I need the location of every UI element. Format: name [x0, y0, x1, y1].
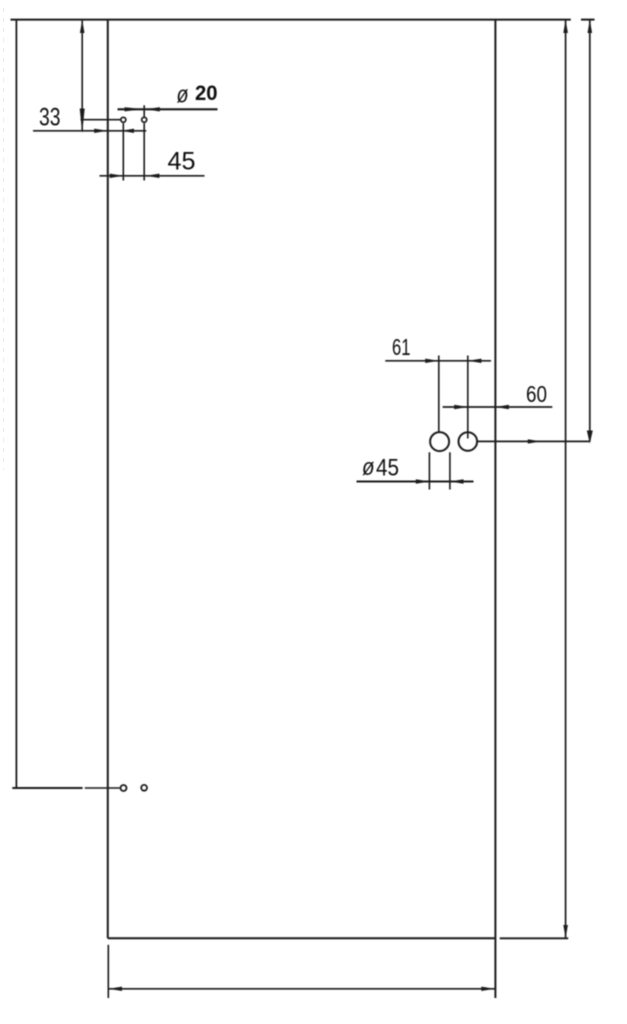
- hole centre extension line top left: [81, 119, 121, 121]
- right dimension line B to hole centre: [589, 20, 591, 442]
- arrow left on dim60 line: [495, 405, 509, 409]
- dimension line 33 vertical: [81, 20, 83, 132]
- dimension line phi45: [357, 481, 474, 483]
- panel outline bottom edge: [108, 937, 496, 939]
- hole H4 mid right: [459, 432, 478, 451]
- dimension line 45: [100, 175, 205, 177]
- top edge extension line: [11, 19, 571, 21]
- panel outline left edge: [107, 20, 109, 939]
- tangent extension line left of hole H3: [428, 452, 430, 489]
- svg-text:61: 61: [392, 334, 411, 360]
- hole H3 mid right phi45: [430, 432, 449, 451]
- arrow right on dim61 line: [425, 359, 439, 363]
- arrow right on dim45 line: [110, 174, 124, 178]
- arrow down dim33 bottom (long): [80, 109, 85, 134]
- arrow right bottom width dim: [481, 987, 495, 991]
- dimension line 61: [385, 360, 491, 362]
- hole H2 top left: [142, 117, 147, 122]
- arrow left bottom width dim: [109, 987, 123, 991]
- extension line above hole H2: [143, 105, 145, 116]
- bottom width dimension line: [108, 988, 496, 990]
- arrow up line B top: [588, 20, 593, 33]
- faint scan edge artifact: [3, 8, 5, 470]
- top edge extension line right segment: [581, 19, 595, 21]
- svg-text:45: 45: [376, 455, 399, 482]
- arrow down line A bottom: [563, 925, 568, 938]
- extension line below hole H2: [143, 123, 145, 180]
- arrow up dim33 top: [80, 20, 85, 33]
- bottom edge extension line right: [500, 937, 569, 939]
- arrow left on dim45 line: [146, 174, 160, 178]
- bottom left hole centre line: [12, 787, 82, 789]
- svg-text:ø: ø: [177, 82, 189, 109]
- arrow right on hole centre line: [528, 439, 541, 443]
- bottom left extension stub: [107, 945, 109, 998]
- svg-text:ø: ø: [362, 454, 375, 481]
- arrow left on phi20 line: [146, 107, 160, 111]
- arrow right on phi20 line: [125, 107, 144, 111]
- svg-text:20: 20: [195, 81, 218, 105]
- svg-text:33: 33: [39, 104, 61, 132]
- tangent extension line right of hole H3: [449, 452, 451, 489]
- right dimension line A overall height: [565, 20, 567, 939]
- dimension line 60: [443, 406, 553, 408]
- extension line above hole H3: [438, 356, 440, 432]
- extension line below hole H1: [122, 123, 124, 180]
- arrow right on dim60 line: [454, 405, 468, 409]
- hole H5 bottom left: [121, 785, 127, 791]
- arrow right on phi45 line: [416, 479, 430, 483]
- arrow left on phi45 line: [450, 479, 464, 483]
- left tall dimension line: [15, 20, 17, 789]
- dimension leader line 33: [33, 130, 146, 132]
- panel outline right edge (extended down as extension line): [494, 20, 496, 999]
- hole centre line to right dimension: [478, 440, 590, 442]
- dimension line phi20: [118, 108, 218, 110]
- arrow left on leader 33 at hole H1: [122, 129, 135, 133]
- svg-text:45: 45: [168, 148, 196, 176]
- arrow up line A top: [563, 20, 568, 33]
- hole H6 bottom left: [141, 785, 147, 791]
- svg-text:60: 60: [526, 381, 547, 407]
- bottom left hole centre line right part: [85, 787, 120, 789]
- arrow down line B at hole centre: [587, 431, 593, 444]
- extension line above hole H4: [467, 356, 469, 439]
- hole H1 top left: [121, 117, 126, 122]
- arrow right on leader 33 at panel edge: [94, 129, 107, 133]
- arrow left on dim61 line: [468, 359, 482, 363]
